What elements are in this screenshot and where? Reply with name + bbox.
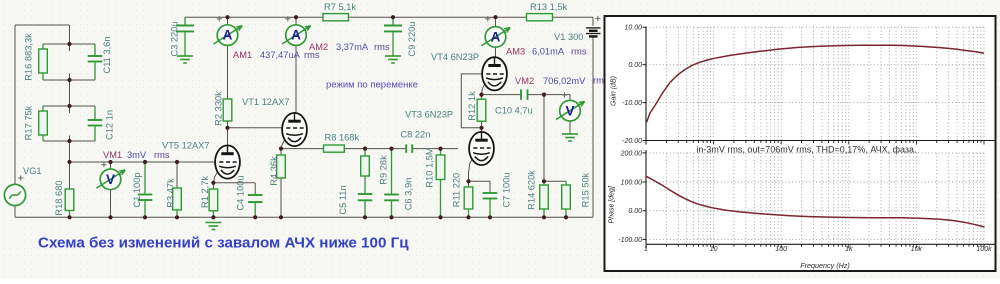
svg-text:100k: 100k bbox=[976, 246, 992, 253]
svg-text:rms: rms bbox=[154, 150, 170, 160]
resistor R17 bbox=[39, 111, 48, 135]
svg-text:Схема без изменений с завалом: Схема без изменений с завалом АЧХ ниже 1… bbox=[38, 234, 409, 251]
wire C6 branch bbox=[391, 149, 393, 195]
svg-text:R10 1,5M: R10 1,5M bbox=[425, 147, 435, 187]
svg-text:AM1: AM1 bbox=[233, 50, 252, 60]
capacitor C12 bbox=[88, 119, 103, 121]
svg-text:R9 28k: R9 28k bbox=[379, 155, 389, 185]
resistor R15 bbox=[562, 185, 571, 209]
svg-text:C3 220u: C3 220u bbox=[170, 21, 180, 56]
svg-text:-10.00: -10.00 bbox=[622, 100, 642, 107]
svg-text:A: A bbox=[491, 30, 501, 45]
svg-text:0.00: 0.00 bbox=[628, 62, 642, 69]
resistor R14 bbox=[540, 185, 549, 209]
wire top B+ rail bbox=[185, 16, 323, 18]
gain curve bbox=[647, 45, 985, 122]
svg-text:Phase [deg]: Phase [deg] bbox=[609, 185, 616, 223]
svg-text:VT5 12AX7: VT5 12AX7 bbox=[162, 141, 210, 151]
wire R18 leads bbox=[69, 162, 71, 189]
svg-text:R13 1,5k: R13 1,5k bbox=[530, 2, 568, 12]
wire VT3 cathode to R11/C7 bbox=[469, 154, 475, 182]
resistor R10 bbox=[436, 155, 445, 180]
wire input node row bbox=[70, 161, 216, 163]
svg-text:VT1 12AX7: VT1 12AX7 bbox=[242, 97, 290, 107]
capacitor C9 bbox=[384, 25, 402, 27]
plot gridlines bbox=[665, 27, 667, 140]
svg-text:1: 1 bbox=[644, 246, 648, 253]
svg-text:V: V bbox=[565, 103, 574, 118]
resistor R4 bbox=[277, 155, 286, 178]
svg-text:VG1: VG1 bbox=[23, 166, 42, 176]
svg-text:R15 50k: R15 50k bbox=[581, 172, 591, 207]
svg-text:437,47uA: 437,47uA bbox=[260, 50, 301, 60]
wire R4 bottom lead bbox=[280, 178, 282, 217]
voltmeter VM2 bbox=[560, 100, 581, 121]
wire output node C10 bbox=[482, 94, 522, 96]
ammeter AM2 bbox=[286, 25, 307, 46]
svg-text:3,37mA: 3,37mA bbox=[336, 42, 369, 52]
svg-text:A: A bbox=[223, 28, 233, 43]
plot axes bbox=[645, 27, 647, 141]
capacitor C5 bbox=[358, 193, 373, 195]
svg-text:режим по переменке: режим по переменке bbox=[326, 80, 418, 91]
svg-text:R18 680: R18 680 bbox=[54, 180, 64, 215]
wire R11 bottom lead bbox=[468, 209, 470, 217]
svg-text:C9 220u: C9 220u bbox=[407, 21, 417, 56]
svg-text:C6 3,9n: C6 3,9n bbox=[404, 178, 414, 211]
wire R8 right to network bbox=[344, 148, 405, 150]
ground below C9 bbox=[385, 55, 401, 57]
svg-text:R16 883,3k: R16 883,3k bbox=[24, 33, 34, 81]
svg-text:-20.00: -20.00 bbox=[622, 138, 642, 145]
capacitor C6 bbox=[384, 194, 399, 196]
junction dots bbox=[67, 42, 71, 46]
resistor R1 bbox=[209, 189, 218, 211]
wire R17 leads bbox=[42, 106, 44, 111]
wire C12 leads bbox=[94, 106, 96, 120]
svg-text:VM1: VM1 bbox=[103, 150, 122, 160]
wire AM2 branch bbox=[295, 17, 297, 25]
triode VT4 bbox=[482, 57, 507, 90]
wire R1 bottom lead bbox=[212, 211, 214, 218]
wire R9+C5 branch bbox=[364, 149, 366, 156]
wire VT1 cathode node bbox=[281, 135, 287, 155]
ground below C3 bbox=[177, 55, 193, 57]
battery V1 bbox=[586, 27, 601, 29]
wire AM3 branch bbox=[495, 17, 497, 26]
capacitor C4 bbox=[248, 194, 263, 196]
resistor R7 bbox=[323, 14, 349, 21]
resistor R2 bbox=[223, 99, 232, 121]
svg-text:R8 168k: R8 168k bbox=[325, 133, 360, 143]
capacitor C10 bbox=[520, 89, 522, 99]
wire R14 R15 tops bbox=[543, 181, 545, 185]
wire output to VM2 and R14 bbox=[544, 94, 570, 96]
wire R10 branch bbox=[440, 149, 442, 155]
svg-text:100.00: 100.00 bbox=[621, 180, 643, 187]
triode VT3 bbox=[469, 132, 494, 165]
svg-text:C8 22n: C8 22n bbox=[400, 129, 430, 139]
source VG1 bbox=[4, 184, 25, 205]
wire C3 lead bbox=[184, 17, 186, 25]
svg-text:VT3 6N23P: VT3 6N23P bbox=[405, 110, 453, 120]
svg-text:R11 220: R11 220 bbox=[452, 173, 462, 207]
ground below VM2 bbox=[562, 133, 578, 135]
triode VT1 bbox=[282, 113, 307, 146]
svg-text:V1 300: V1 300 bbox=[554, 32, 583, 42]
svg-text:C11 3,6n: C11 3,6n bbox=[102, 36, 112, 73]
svg-text:VM2: VM2 bbox=[515, 76, 534, 86]
phase curve bbox=[646, 176, 985, 227]
capacitor C3 bbox=[176, 25, 194, 27]
svg-text:R2 330k: R2 330k bbox=[214, 91, 224, 126]
wire R16 leads bbox=[42, 44, 44, 49]
svg-text:C7 100u: C7 100u bbox=[502, 172, 512, 207]
triode VT5 bbox=[215, 145, 240, 178]
wire R2 to VT5 plate and VT1 grid bbox=[227, 121, 229, 146]
wire VT4 cathode to R12 top bbox=[482, 79, 488, 99]
wire VM1 leads bbox=[110, 162, 112, 169]
svg-text:Gain (dB): Gain (dB) bbox=[611, 76, 618, 106]
svg-text:10k: 10k bbox=[911, 246, 923, 253]
svg-text:1k: 1k bbox=[845, 246, 853, 253]
resistor R8 bbox=[324, 145, 345, 152]
wire R3 leads bbox=[176, 162, 178, 188]
resistor R16 bbox=[39, 49, 48, 73]
capacitor C1 bbox=[138, 194, 153, 196]
resistor R11 bbox=[464, 187, 473, 209]
ammeter AM1 bbox=[217, 25, 238, 46]
ammeter AM3 bbox=[485, 27, 506, 48]
wire AM1 branch bbox=[227, 17, 229, 25]
wire VM2 ground lead bbox=[569, 121, 571, 134]
wire VT5 cathode to R1/C4 bbox=[213, 167, 220, 189]
wire battery negative drop bbox=[592, 37, 594, 218]
svg-text:rms: rms bbox=[374, 42, 390, 52]
wire C9 lead bbox=[392, 17, 394, 25]
svg-text:0.00: 0.00 bbox=[628, 208, 642, 215]
svg-text:Frequency (Hz): Frequency (Hz) bbox=[800, 261, 850, 270]
resistor R18 bbox=[65, 189, 74, 211]
resistor R13 bbox=[527, 14, 553, 21]
svg-text:AM3: AM3 bbox=[506, 47, 525, 57]
svg-text:R7 5,1k: R7 5,1k bbox=[324, 2, 356, 12]
wire C1 leads bbox=[144, 162, 146, 195]
svg-text:in-3mV rms, out=706mV rms, THD: in-3mV rms, out=706mV rms, THD=0,17%, АЧ… bbox=[696, 145, 916, 155]
svg-text:C5 11n: C5 11n bbox=[338, 185, 348, 214]
svg-text:R4 36k: R4 36k bbox=[269, 156, 279, 186]
svg-text:R17 75k: R17 75k bbox=[24, 105, 34, 140]
svg-text:6,01mA: 6,01mA bbox=[532, 47, 565, 57]
resistor R3 bbox=[173, 188, 182, 210]
svg-text:3mV: 3mV bbox=[127, 150, 147, 160]
svg-text:R3 47k: R3 47k bbox=[166, 178, 176, 208]
wire R14 R15 bottoms bbox=[543, 209, 545, 217]
wire C11 leads bbox=[94, 44, 96, 56]
svg-text:AM2: AM2 bbox=[309, 42, 328, 52]
plot panel frame bbox=[605, 16, 996, 271]
svg-text:V: V bbox=[106, 172, 115, 187]
svg-text:A: A bbox=[291, 28, 301, 43]
resistor R12 bbox=[477, 99, 486, 121]
svg-text:rms: rms bbox=[571, 47, 587, 57]
svg-text:10.00: 10.00 bbox=[624, 25, 642, 32]
svg-text:R1 2,7k: R1 2,7k bbox=[200, 176, 210, 208]
svg-text:706,02mV: 706,02mV bbox=[543, 76, 586, 86]
svg-text:C12 1n: C12 1n bbox=[105, 110, 115, 140]
capacitor C8 bbox=[405, 144, 407, 152]
wire VT3 plate to R12 bbox=[481, 121, 483, 132]
svg-text:R12 1k: R12 1k bbox=[467, 91, 477, 121]
svg-text:C4 100u: C4 100u bbox=[236, 175, 246, 210]
wire C4 bottom lead bbox=[254, 202, 256, 217]
svg-text:R14 620k: R14 620k bbox=[527, 170, 537, 210]
svg-text:100: 100 bbox=[775, 246, 787, 253]
resistor R9 bbox=[361, 156, 370, 176]
svg-text:10: 10 bbox=[710, 246, 718, 253]
capacitor C7 bbox=[483, 192, 498, 194]
ground below R1 bbox=[205, 222, 221, 224]
wire C7 bottom lead bbox=[489, 199, 491, 218]
wire feedback chain column bbox=[43, 43, 95, 45]
wire VG1 top to feedback chain bbox=[14, 25, 16, 184]
voltmeter VM1 bbox=[100, 169, 121, 190]
svg-text:-100.00: -100.00 bbox=[618, 237, 642, 244]
svg-text:C10 4,7u: C10 4,7u bbox=[495, 106, 533, 116]
svg-text:200.00: 200.00 bbox=[620, 150, 643, 157]
capacitor C11 bbox=[88, 55, 103, 57]
svg-text:C1 100p: C1 100p bbox=[132, 172, 142, 207]
wire VT4 grid loop bbox=[461, 74, 482, 128]
svg-text:VT4 6N23P: VT4 6N23P bbox=[431, 52, 479, 62]
wire bottom ground rail bbox=[14, 206, 16, 218]
